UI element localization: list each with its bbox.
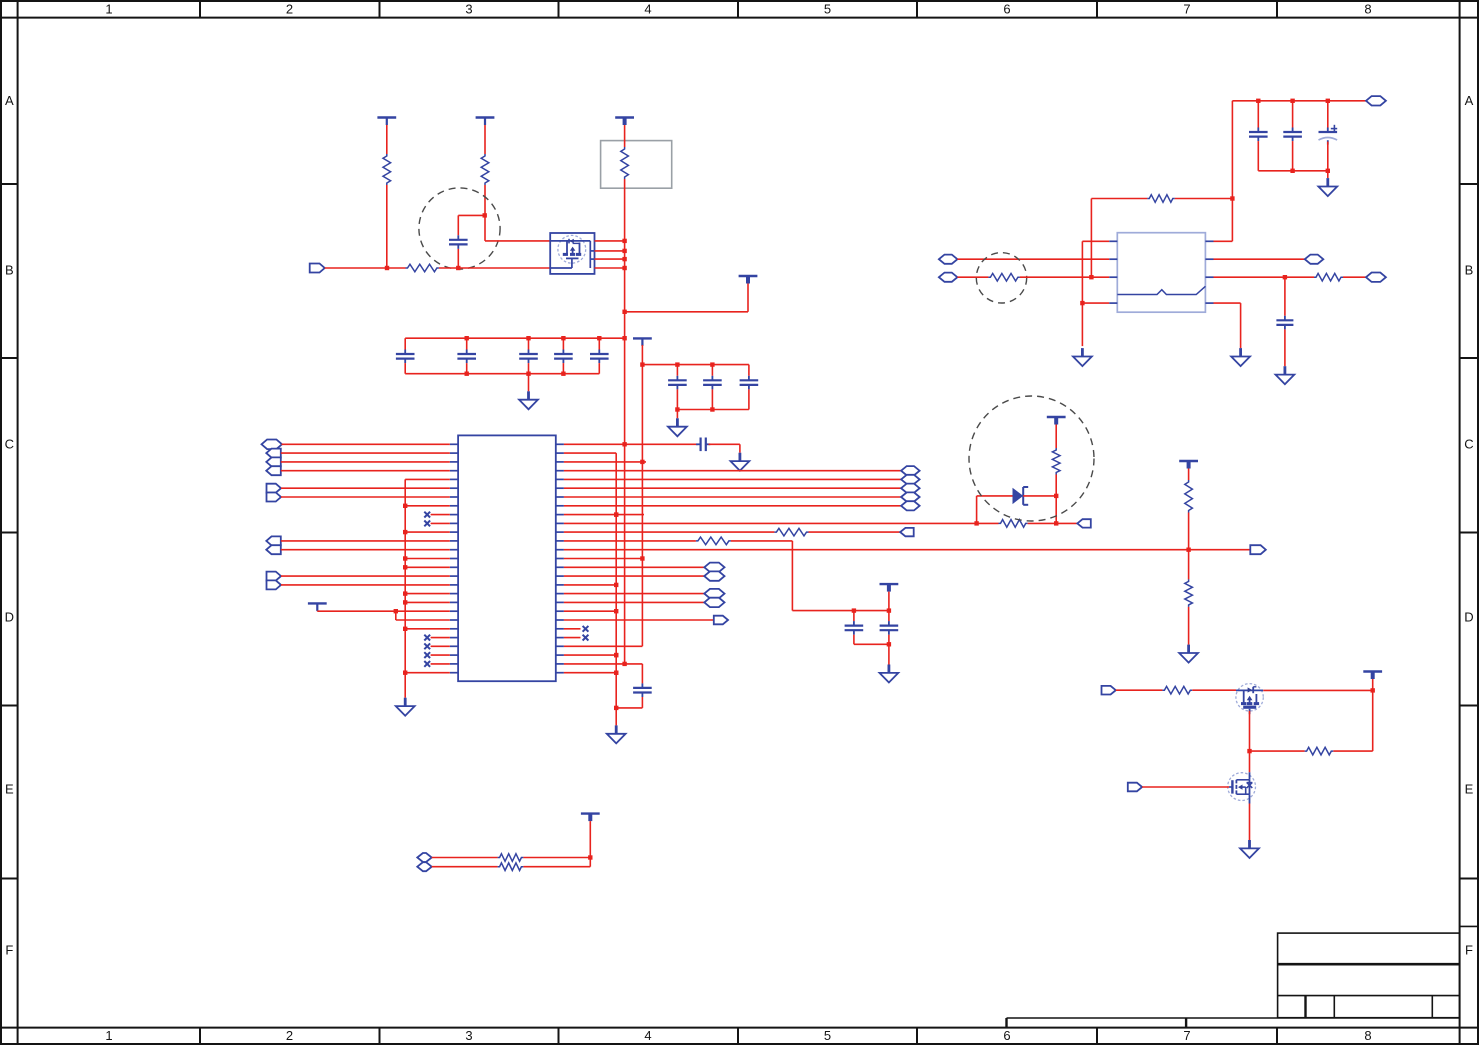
svg-text:3: 3: [465, 2, 472, 17]
svg-text:7: 7: [1183, 1028, 1190, 1043]
svg-text:E: E: [1465, 782, 1474, 797]
svg-text:F: F: [1465, 943, 1473, 958]
svg-text:6: 6: [1003, 2, 1010, 17]
svg-text:B: B: [1465, 263, 1474, 278]
svg-text:C: C: [1464, 437, 1473, 452]
svg-text:F: F: [5, 943, 13, 958]
svg-text:A: A: [1465, 93, 1474, 108]
svg-text:E: E: [5, 782, 14, 797]
svg-text:2: 2: [286, 2, 293, 17]
svg-text:4: 4: [644, 1028, 651, 1043]
svg-text:3: 3: [465, 1028, 472, 1043]
svg-text:8: 8: [1364, 1028, 1371, 1043]
svg-text:4: 4: [644, 2, 651, 17]
svg-text:D: D: [5, 610, 14, 625]
svg-text:8: 8: [1364, 2, 1371, 17]
svg-text:6: 6: [1003, 1028, 1010, 1043]
svg-text:7: 7: [1183, 2, 1190, 17]
svg-text:1: 1: [105, 2, 112, 17]
svg-text:B: B: [5, 263, 14, 278]
svg-text:C: C: [5, 437, 14, 452]
svg-text:A: A: [5, 93, 14, 108]
svg-text:1: 1: [105, 1028, 112, 1043]
svg-text:D: D: [1464, 610, 1473, 625]
svg-text:5: 5: [824, 1028, 831, 1043]
svg-text:5: 5: [824, 2, 831, 17]
svg-text:2: 2: [286, 1028, 293, 1043]
